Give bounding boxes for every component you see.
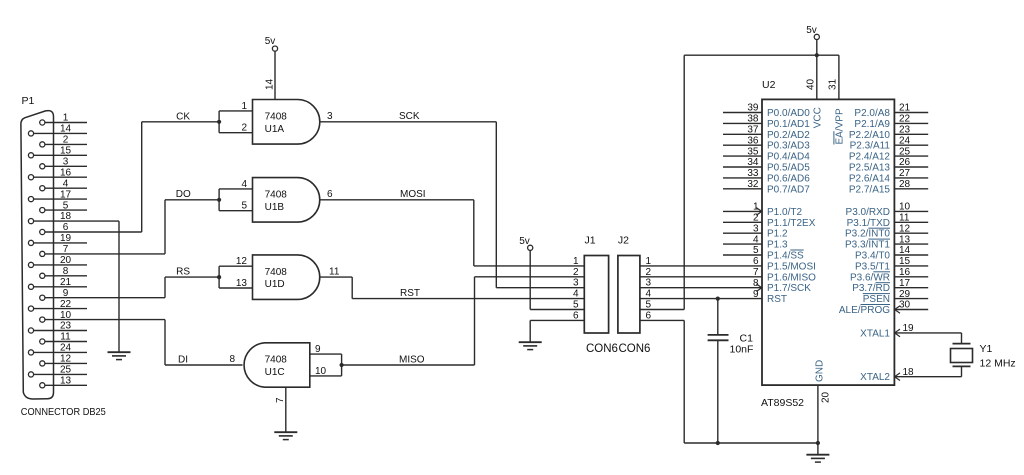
wire J1 pin 6 to ground xyxy=(530,319,584,321)
svg-text:1: 1 xyxy=(573,256,579,267)
svg-text:4: 4 xyxy=(573,289,579,300)
P1 pin 25 wire xyxy=(34,373,87,375)
P1 pin 23 wire xyxy=(34,330,87,332)
wire J2 pin 4 RST to U2 pin 9 xyxy=(640,298,762,300)
svg-text:31: 31 xyxy=(828,78,839,90)
svg-text:P1.2: P1.2 xyxy=(767,229,788,240)
U2 pin 18 XTAL2 wire xyxy=(894,376,961,378)
ground below U1C xyxy=(274,431,297,433)
U2 pin 27 wire xyxy=(894,177,928,179)
P1 pin 19 circle xyxy=(28,240,33,245)
U2 pin 21 wire xyxy=(894,112,928,114)
svg-text:6: 6 xyxy=(573,310,579,321)
IC U2 body xyxy=(762,99,894,385)
svg-text:5: 5 xyxy=(753,245,759,256)
U2 pin 8 input arrow xyxy=(756,284,762,292)
P1 pin 13 wire xyxy=(45,384,87,386)
AND gate U1C body mirrored xyxy=(244,343,310,387)
svg-text:2: 2 xyxy=(63,135,69,146)
svg-text:P1.6/MISO: P1.6/MISO xyxy=(767,272,816,283)
P1 pin 5 circle xyxy=(40,208,45,213)
P1 pin 23 circle xyxy=(28,328,33,333)
svg-text:P0.3/AD3: P0.3/AD3 xyxy=(767,141,810,152)
svg-text:19: 19 xyxy=(60,233,72,244)
wire ground rail xyxy=(684,442,818,444)
svg-text:39: 39 xyxy=(747,103,759,114)
svg-text:13: 13 xyxy=(236,278,248,289)
svg-text:XTAL1: XTAL1 xyxy=(860,328,890,339)
svg-text:6: 6 xyxy=(63,222,69,233)
svg-text:P3.7/RD: P3.7/RD xyxy=(852,283,890,294)
svg-text:19: 19 xyxy=(903,323,915,334)
U2 pin 32 wire xyxy=(723,188,762,190)
svg-text:7408: 7408 xyxy=(265,355,288,366)
U2 pin 28 wire xyxy=(894,188,928,190)
svg-text:18: 18 xyxy=(60,211,72,222)
P1 pin 13 circle xyxy=(40,383,45,388)
P1 pin 16 wire xyxy=(34,176,87,178)
svg-text:5v: 5v xyxy=(519,236,530,247)
P1 pin 16 circle xyxy=(28,175,33,180)
junction dot DO at U1B inputs xyxy=(217,198,221,202)
svg-text:XTAL2: XTAL2 xyxy=(860,372,890,383)
junction dot CK at U1A inputs xyxy=(217,120,221,124)
svg-text:11: 11 xyxy=(60,332,71,343)
svg-text:Y1: Y1 xyxy=(980,343,993,355)
svg-text:33: 33 xyxy=(747,168,759,179)
svg-text:28: 28 xyxy=(899,179,911,190)
P1 pin 4 wire xyxy=(45,187,87,189)
P1 pin 21 wire xyxy=(34,286,87,288)
wire J2 pin 1 to U2 xyxy=(640,265,762,267)
P1 pin 3 circle xyxy=(40,164,45,169)
svg-text:15: 15 xyxy=(899,256,911,267)
U2 pin 13 wire xyxy=(894,243,928,245)
svg-text:P1.3: P1.3 xyxy=(767,240,788,251)
P1 pin 6 wire xyxy=(45,231,142,233)
svg-text:12 MHz: 12 MHz xyxy=(980,358,1016,370)
P1 pin 22 wire xyxy=(34,308,87,310)
U2 pin 22 wire xyxy=(894,122,928,124)
svg-text:CON6: CON6 xyxy=(586,343,618,355)
svg-text:2: 2 xyxy=(573,267,579,278)
connector J1 body xyxy=(584,256,608,334)
svg-text:22: 22 xyxy=(899,114,911,125)
svg-text:8: 8 xyxy=(753,278,759,289)
P1 pin 5 wire xyxy=(45,209,87,211)
svg-text:P3.5/T1: P3.5/T1 xyxy=(855,261,890,272)
wire DO from P1 pin 7 xyxy=(164,200,166,254)
svg-text:P1: P1 xyxy=(22,95,35,107)
capacitor C1 bottom plate xyxy=(708,339,729,341)
junction dot RST-C1 xyxy=(716,297,720,301)
P1 pin 9 wire xyxy=(45,297,165,299)
U1D output wire pin 11 RST xyxy=(320,276,352,278)
svg-text:U2: U2 xyxy=(762,79,776,91)
ground below J1 xyxy=(519,341,542,343)
P1 pin 21 circle xyxy=(28,284,33,289)
crystal Y1 bottom electrode xyxy=(953,365,971,367)
crystal Y1 body xyxy=(951,349,973,363)
svg-text:P3.3/INT1: P3.3/INT1 xyxy=(845,240,890,251)
P1 pin 15 circle xyxy=(28,153,33,158)
svg-text:2: 2 xyxy=(241,123,247,134)
svg-text:PSEN: PSEN xyxy=(863,294,890,305)
svg-text:10: 10 xyxy=(60,310,72,321)
svg-text:P0.5/AD5: P0.5/AD5 xyxy=(767,163,810,174)
svg-text:P3.6/WR: P3.6/WR xyxy=(850,272,890,283)
U2 pin 29 wire xyxy=(894,298,928,300)
svg-text:35: 35 xyxy=(747,146,759,157)
svg-text:37: 37 xyxy=(747,125,759,136)
svg-text:VCC: VCC xyxy=(812,107,823,128)
U2 pin 5 wire xyxy=(723,254,762,256)
P1 pin 14 circle xyxy=(28,131,33,136)
svg-text:5v: 5v xyxy=(806,25,817,36)
wire MISO vertical to J1 pin 2 xyxy=(474,277,476,365)
svg-text:34: 34 xyxy=(747,157,759,168)
AND gate U1B body xyxy=(253,178,320,223)
U2 pin 1 input arrow xyxy=(756,208,762,216)
svg-text:P1.7/SCK: P1.7/SCK xyxy=(767,283,811,294)
svg-text:12: 12 xyxy=(60,354,72,365)
wire 5v rail horizontal xyxy=(684,54,839,56)
svg-text:P1.5/MOSI: P1.5/MOSI xyxy=(767,261,816,272)
svg-text:P2.5/A13: P2.5/A13 xyxy=(849,163,891,174)
svg-text:11: 11 xyxy=(329,266,340,277)
U1C pin 7 ground wire xyxy=(285,387,287,432)
junction dot 5v rail xyxy=(815,53,819,57)
U2 pin 39 wire xyxy=(723,112,762,114)
P1 pin 10 circle xyxy=(40,317,45,322)
U2 pin 30 wire xyxy=(894,309,928,311)
svg-text:P3.0/RXD: P3.0/RXD xyxy=(846,207,890,218)
P1 pin 14 wire xyxy=(34,132,87,134)
P1 pin 24 circle xyxy=(28,350,33,355)
svg-text:23: 23 xyxy=(60,321,72,332)
svg-text:27: 27 xyxy=(899,168,911,179)
U2 pin 4 wire xyxy=(723,243,762,245)
svg-text:DI: DI xyxy=(178,354,188,365)
svg-text:P2.0/A8: P2.0/A8 xyxy=(854,108,890,119)
wire J2 pin 2 to U2 xyxy=(640,276,762,278)
wire 5v to U2 pin 40 VCC xyxy=(816,55,818,99)
svg-text:25: 25 xyxy=(60,365,72,376)
svg-text:P0.4/AD4: P0.4/AD4 xyxy=(767,152,810,163)
crystal Y1 top electrode xyxy=(953,343,971,345)
svg-text:23: 23 xyxy=(899,125,911,136)
U2 pin 16 wire xyxy=(894,276,928,278)
U2 pin 10 wire xyxy=(894,210,928,212)
svg-text:P2.6/A14: P2.6/A14 xyxy=(849,173,891,184)
svg-text:P2.3/A11: P2.3/A11 xyxy=(850,141,891,152)
svg-text:P2.1/A9: P2.1/A9 xyxy=(854,119,890,130)
connector P1 DB25 body outline xyxy=(21,111,54,399)
U2 pin 34 wire xyxy=(723,166,762,168)
svg-text:7: 7 xyxy=(63,244,69,255)
P1 pin 25 circle xyxy=(28,372,33,377)
ground below U2 xyxy=(806,454,829,456)
svg-text:CONNECTOR DB25: CONNECTOR DB25 xyxy=(21,406,106,418)
AND gate U1D body xyxy=(253,255,320,300)
wire RST junction to C1 xyxy=(717,299,719,335)
svg-text:14: 14 xyxy=(60,124,72,135)
svg-text:20: 20 xyxy=(60,255,72,266)
U2 pin 17 wire xyxy=(894,287,928,289)
P1 pin 11 wire xyxy=(45,341,87,343)
U1C input bracket wires pins 9,10 xyxy=(310,353,342,355)
svg-text:16: 16 xyxy=(899,267,911,278)
svg-text:5v: 5v xyxy=(265,36,276,47)
svg-text:U1C: U1C xyxy=(265,367,285,378)
U2 pin 38 wire xyxy=(723,122,762,124)
P1 pin 10 wire xyxy=(45,319,165,321)
svg-text:7: 7 xyxy=(275,397,286,403)
P1 pin 8 wire xyxy=(45,275,87,277)
P1 pin 19 wire xyxy=(34,242,87,244)
ground below P1 xyxy=(108,351,131,353)
P1 pin 6 circle xyxy=(40,229,45,234)
svg-text:CK: CK xyxy=(176,111,190,122)
svg-text:4: 4 xyxy=(63,178,69,189)
svg-text:14: 14 xyxy=(265,78,276,90)
wire SCK vertical to J1 pin 3 xyxy=(495,122,497,288)
U2 pin 20 GND wire xyxy=(817,385,819,443)
P1 pin 18 circle xyxy=(28,219,33,224)
svg-text:U1B: U1B xyxy=(265,202,285,213)
P1 pin 20 wire xyxy=(34,264,87,266)
wire P1 pin 18 to ground xyxy=(118,221,120,352)
svg-text:7: 7 xyxy=(753,267,759,278)
U2 pin 33 wire xyxy=(723,177,762,179)
svg-text:22: 22 xyxy=(60,299,72,310)
svg-text:11: 11 xyxy=(899,213,910,224)
P1 pin 3 wire xyxy=(45,165,87,167)
svg-text:P3.1/TXD: P3.1/TXD xyxy=(847,218,890,229)
U1A input bracket wires pins 1,2 xyxy=(218,111,220,133)
svg-text:8: 8 xyxy=(229,354,235,365)
svg-text:4: 4 xyxy=(753,234,759,245)
svg-text:40: 40 xyxy=(806,78,817,90)
P1 pin 15 wire xyxy=(34,154,87,156)
svg-text:P2.7/A15: P2.7/A15 xyxy=(849,184,891,195)
U2 pin 25 wire xyxy=(894,155,928,157)
svg-text:18: 18 xyxy=(903,367,915,378)
wire J2 pin 5 to 5v riser xyxy=(640,309,684,311)
U2 pin 35 wire xyxy=(723,155,762,157)
svg-text:5: 5 xyxy=(573,300,579,311)
svg-text:12: 12 xyxy=(899,223,911,234)
svg-text:ALE/PROG: ALE/PROG xyxy=(839,305,890,316)
svg-text:GND: GND xyxy=(814,360,825,382)
P1 pin 7 circle xyxy=(40,251,45,256)
svg-text:29: 29 xyxy=(899,289,911,300)
svg-text:6: 6 xyxy=(327,189,333,200)
svg-text:14: 14 xyxy=(899,245,911,256)
5v supply circle above U2 xyxy=(814,34,819,39)
svg-text:EA/VPP: EA/VPP xyxy=(834,108,845,144)
svg-text:24: 24 xyxy=(899,135,911,146)
svg-text:36: 36 xyxy=(747,135,759,146)
U1A pin 14 power wire xyxy=(274,51,276,99)
P1 pin 1 wire xyxy=(45,122,87,124)
svg-text:21: 21 xyxy=(899,103,911,114)
svg-text:26: 26 xyxy=(899,157,911,168)
5v supply circle near J1 xyxy=(528,245,533,250)
svg-text:10nF: 10nF xyxy=(730,343,754,355)
svg-text:17: 17 xyxy=(60,189,72,200)
svg-text:16: 16 xyxy=(60,167,72,178)
svg-text:13: 13 xyxy=(60,376,72,387)
svg-text:3: 3 xyxy=(753,223,759,234)
svg-text:7408: 7408 xyxy=(265,267,288,278)
wire J2 pin 6 to ground rail xyxy=(640,319,684,321)
P1 pin 12 circle xyxy=(40,361,45,366)
wire 5v rail down to J2 pin 5 xyxy=(683,55,685,309)
junction dot MISO at U1C inputs xyxy=(340,363,344,367)
svg-text:CON6: CON6 xyxy=(619,343,651,355)
wire MOSI vertical to J1 pin 1 xyxy=(473,200,475,266)
wire GND stem xyxy=(817,443,819,455)
svg-text:P1.1/T2EX: P1.1/T2EX xyxy=(767,218,816,229)
svg-text:3: 3 xyxy=(63,157,69,168)
U2 pin 2 wire xyxy=(723,221,762,223)
U2 pin 36 wire xyxy=(723,144,762,146)
svg-text:13: 13 xyxy=(899,234,911,245)
U2 pin 19 XTAL1 wire xyxy=(894,332,961,334)
wire RS from P1 pin 9 xyxy=(164,277,166,298)
P1 pin 11 circle xyxy=(40,339,45,344)
svg-text:9: 9 xyxy=(63,288,69,299)
wire J2 pin 3 to U2 xyxy=(640,287,762,289)
U2 pin 15 wire xyxy=(894,265,928,267)
svg-text:25: 25 xyxy=(899,146,911,157)
wire crystal to XTAL2 xyxy=(961,366,963,376)
svg-text:3: 3 xyxy=(327,111,333,122)
svg-text:P3.2/INT0: P3.2/INT0 xyxy=(845,229,890,240)
P1 pin 20 circle xyxy=(28,262,33,267)
connector J2 body xyxy=(618,256,640,334)
U2 pin 23 wire xyxy=(894,133,928,135)
P1 pin 4 circle xyxy=(40,186,45,191)
wire CK from P1 pin 6 xyxy=(141,122,143,232)
U2 pin 3 wire xyxy=(723,232,762,234)
svg-text:7408: 7408 xyxy=(265,190,288,201)
svg-text:7408: 7408 xyxy=(265,112,288,123)
svg-text:J2: J2 xyxy=(618,235,629,247)
svg-text:10: 10 xyxy=(315,366,327,377)
wire DI from P1 pin 10 xyxy=(164,320,166,365)
U2 pin 1 wire xyxy=(723,210,762,212)
svg-text:24: 24 xyxy=(60,343,72,354)
svg-text:9: 9 xyxy=(315,344,321,355)
svg-text:4: 4 xyxy=(241,179,247,190)
U1B input bracket wires pins 4,5 xyxy=(218,189,220,211)
U2 pin 37 wire xyxy=(723,133,762,135)
P1 pin 24 wire xyxy=(34,351,87,353)
svg-text:12: 12 xyxy=(236,256,248,267)
svg-text:5: 5 xyxy=(63,200,69,211)
svg-text:P0.1/AD1: P0.1/AD1 xyxy=(767,119,810,130)
P1 pin 12 wire xyxy=(45,362,87,364)
junction dot RS at U1D inputs xyxy=(217,275,221,279)
svg-text:3: 3 xyxy=(573,278,579,289)
U2 pin 18 input arrow xyxy=(895,373,900,381)
op-amp... AND gate U1A body xyxy=(253,100,320,145)
svg-text:P0.6/AD6: P0.6/AD6 xyxy=(767,173,810,184)
svg-text:SCK: SCK xyxy=(399,111,420,122)
P1 pin 2 wire xyxy=(45,143,87,145)
P1 pin 2 circle xyxy=(40,142,45,147)
svg-text:P0.2/AD2: P0.2/AD2 xyxy=(767,130,810,141)
P1 pin 1 circle xyxy=(40,120,45,125)
P1 pin 17 wire xyxy=(34,198,87,200)
U2 pin 26 wire xyxy=(894,166,928,168)
P1 pin 17 circle xyxy=(28,197,33,202)
5v supply circle above U1A xyxy=(272,46,277,51)
svg-text:P2.4/A12: P2.4/A12 xyxy=(849,152,891,163)
svg-text:6: 6 xyxy=(753,256,759,267)
svg-text:20: 20 xyxy=(821,391,832,403)
P1 pin 9 circle xyxy=(40,295,45,300)
wire RST jog down xyxy=(351,277,353,299)
U2 pin 12 wire xyxy=(894,232,928,234)
svg-text:5: 5 xyxy=(241,201,247,212)
svg-text:P1.4/SS: P1.4/SS xyxy=(767,251,804,262)
U1A output wire pin 3 SCK xyxy=(320,121,497,123)
svg-text:DO: DO xyxy=(176,189,191,200)
svg-text:15: 15 xyxy=(60,146,72,157)
svg-text:32: 32 xyxy=(747,179,759,190)
capacitor C1 top plate xyxy=(708,334,729,336)
svg-text:P0.7/AD7: P0.7/AD7 xyxy=(767,184,810,195)
svg-text:U1D: U1D xyxy=(265,279,285,290)
wire 5v to U2 pin 31 EA/VPP xyxy=(838,55,840,99)
svg-text:1: 1 xyxy=(753,202,759,213)
wire XTAL1 to crystal xyxy=(961,333,963,344)
junction dot U2 GND rail xyxy=(816,441,820,445)
U2 pin 24 wire xyxy=(894,144,928,146)
svg-text:MISO: MISO xyxy=(399,354,425,365)
wire MISO to riser xyxy=(342,364,475,366)
P1 pin 7 wire xyxy=(45,253,165,255)
svg-text:RS: RS xyxy=(176,266,190,277)
P1 pin 22 circle xyxy=(28,306,33,311)
svg-text:P1.0/T2: P1.0/T2 xyxy=(767,207,802,218)
P1 pin 18 wire xyxy=(34,220,119,222)
wire 5v to J1 pin 5 xyxy=(529,250,531,309)
svg-text:MOSI: MOSI xyxy=(400,189,426,200)
svg-text:U1A: U1A xyxy=(265,124,285,135)
svg-text:8: 8 xyxy=(63,266,69,277)
svg-text:17: 17 xyxy=(899,278,911,289)
svg-text:10: 10 xyxy=(899,202,911,213)
svg-text:1: 1 xyxy=(63,113,69,124)
wire RST horizontal to J1 pin 4 xyxy=(352,298,584,300)
wire 5v stem xyxy=(816,40,818,56)
svg-text:P0.0/AD0: P0.0/AD0 xyxy=(767,108,810,119)
junction dot C1 ground xyxy=(716,441,720,445)
svg-text:21: 21 xyxy=(60,277,72,288)
U1B output wire pin 6 MOSI xyxy=(320,199,474,201)
U2 pin 30 input arrow xyxy=(895,306,900,314)
svg-text:P3.4/T0: P3.4/T0 xyxy=(855,251,890,262)
svg-text:30: 30 xyxy=(899,300,911,311)
svg-text:1: 1 xyxy=(241,101,247,112)
wire C1 to ground rail xyxy=(717,340,719,443)
svg-text:RST: RST xyxy=(767,294,787,305)
svg-text:J1: J1 xyxy=(585,235,596,247)
